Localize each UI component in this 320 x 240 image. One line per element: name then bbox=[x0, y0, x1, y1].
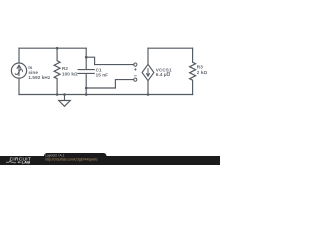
wire bottom bus bbox=[19, 94, 193, 96]
wire to minus terminal bbox=[86, 80, 133, 88]
svg-text:LAB: LAB bbox=[22, 160, 31, 164]
watermark tab bbox=[44, 153, 107, 165]
VCCS1 dependent source bbox=[142, 48, 154, 94]
junction node top R2 bbox=[56, 47, 59, 50]
terminal polarity plus bbox=[134, 68, 136, 70]
wire left vertical bbox=[18, 48, 20, 94]
watermark bar bbox=[0, 153, 220, 165]
svg-text:R2: R2 bbox=[62, 66, 68, 71]
junction node C1 bottom tap bbox=[85, 87, 88, 90]
wire to plus terminal bbox=[86, 57, 133, 64]
resistor R3 bbox=[190, 48, 196, 94]
terminal polarity minus bbox=[134, 75, 136, 77]
watermark logo waveform bbox=[6, 161, 16, 164]
current source Is bbox=[11, 63, 26, 78]
junction node bus R2 bbox=[56, 93, 59, 96]
svg-text:1.592 kHz: 1.592 kHz bbox=[28, 75, 50, 80]
wire top right bbox=[148, 47, 193, 49]
svg-text:2 kΩ: 2 kΩ bbox=[197, 70, 208, 75]
terminal plus bbox=[134, 63, 137, 66]
wire top bus bbox=[19, 47, 86, 49]
svg-text:15 nF: 15 nF bbox=[96, 73, 109, 78]
capacitor C1 bbox=[78, 48, 94, 94]
svg-text:6.4 µ℧: 6.4 µ℧ bbox=[156, 71, 171, 77]
terminal minus bbox=[134, 78, 137, 81]
svg-text:http://circuitlab.com/c/3g8744: http://circuitlab.com/c/3g8744dpw9c bbox=[45, 157, 98, 161]
junction node bus C1 bbox=[85, 93, 88, 96]
junction node C1 top tap bbox=[85, 56, 88, 59]
ground bbox=[59, 95, 71, 107]
svg-text:100 kΩ: 100 kΩ bbox=[62, 72, 78, 77]
junction node bus VCCS bbox=[147, 93, 150, 96]
resistor R2 bbox=[54, 48, 60, 94]
svg-text:R3: R3 bbox=[197, 64, 203, 69]
junction node bus ground bbox=[63, 93, 66, 96]
